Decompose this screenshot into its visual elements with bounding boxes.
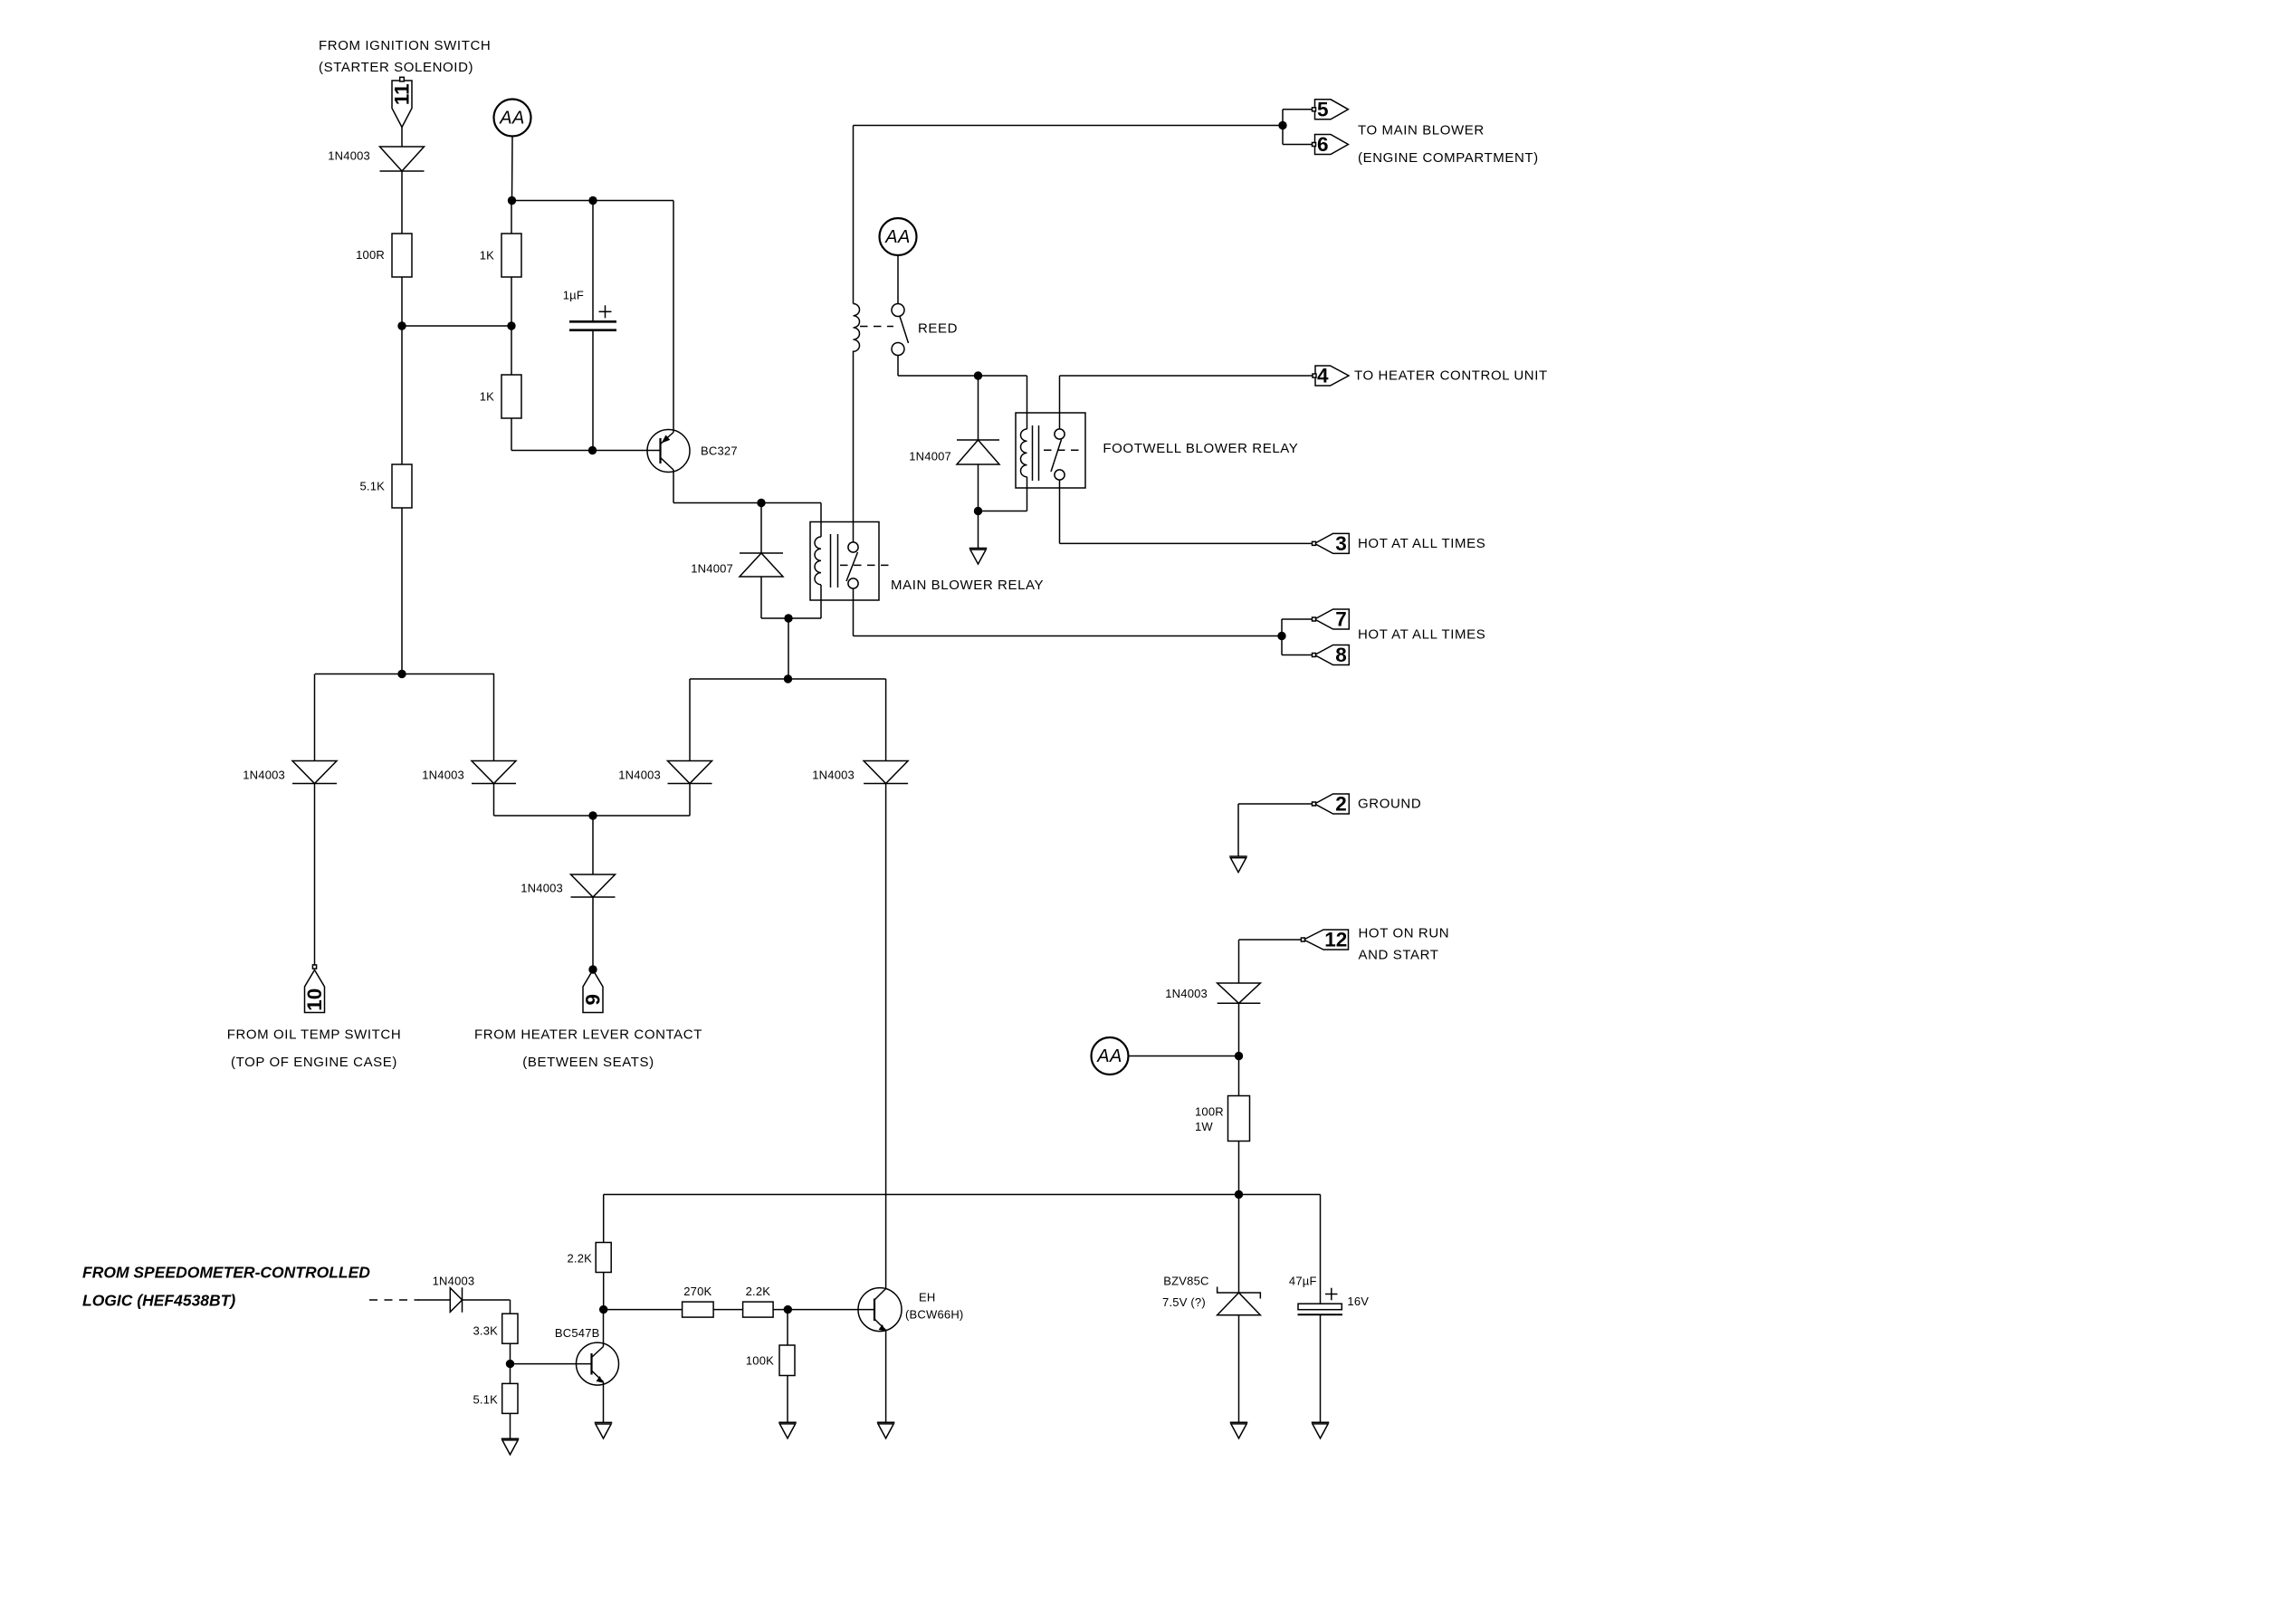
wire R6 to R7 <box>510 1343 511 1383</box>
wire main contact bottom down <box>853 588 855 636</box>
ground (footwell coil) <box>969 549 988 565</box>
diode D6 1N4007 (main relay flyback) <box>740 553 783 577</box>
svg-text:TO HEATER CONTROL UNIT: TO HEATER CONTROL UNIT <box>1354 368 1548 384</box>
svg-text:(STARTER SOLENOID): (STARTER SOLENOID) <box>319 60 473 75</box>
svg-text:HOT AT ALL TIMES: HOT AT ALL TIMES <box>1358 536 1485 551</box>
svg-text:1N4007: 1N4007 <box>691 562 733 576</box>
wire R3 to R4 <box>511 277 512 375</box>
wire to connectors 7/8 <box>854 635 1283 637</box>
wire 5/6 split <box>1282 110 1284 145</box>
svg-text:LOGIC (HEF4538BT): LOGIC (HEF4538BT) <box>82 1291 235 1309</box>
svg-text:1N4003: 1N4003 <box>618 769 661 782</box>
wire R2 to diode row rail <box>401 508 403 674</box>
wire BC547 collector up <box>603 1310 605 1347</box>
svg-text:EH: EH <box>919 1291 935 1304</box>
wire AA to reed contact <box>897 255 899 303</box>
wire top rail down to reed coil <box>853 126 855 304</box>
svg-text:1N4003: 1N4003 <box>520 882 563 895</box>
svg-text:47µF: 47µF <box>1289 1275 1317 1288</box>
svg-text:(ENGINE COMPARTMENT): (ENGINE COMPARTMENT) <box>1358 150 1539 166</box>
wire 11 to D1 <box>401 128 403 148</box>
wire R9 to R10 <box>713 1309 743 1311</box>
svg-text:5.1K: 5.1K <box>359 480 385 493</box>
svg-text:2.2K: 2.2K <box>746 1285 771 1298</box>
wire EH emitter to ground <box>885 1331 887 1423</box>
reed contact bottom <box>892 343 904 356</box>
connector 5 <box>1315 98 1349 120</box>
wire main coil top pin <box>820 503 822 538</box>
svg-text:(TOP OF ENGINE CASE): (TOP OF ENGINE CASE) <box>231 1055 397 1070</box>
wire D1 to R1 <box>401 171 403 234</box>
svg-text:1N4007: 1N4007 <box>909 450 951 463</box>
transistor Q3 EH BCW66H (NPN) <box>858 1288 902 1332</box>
wire D11 to 3.3K branch <box>463 1299 511 1301</box>
ground (EH) <box>877 1422 895 1438</box>
svg-text:1N4003: 1N4003 <box>328 149 370 163</box>
svg-text:5.1K: 5.1K <box>473 1393 498 1407</box>
main relay coil <box>815 537 821 585</box>
diode D8 1N4003 <box>864 761 908 784</box>
wire D6/coil bottom rail <box>761 617 821 619</box>
wire node A to R2 <box>401 326 403 464</box>
reed relay coil <box>854 304 860 352</box>
wire D7 to connector 9 <box>592 897 594 970</box>
wire AA to rail <box>511 137 514 201</box>
junction D5 top <box>974 371 982 379</box>
wire to D3 <box>493 674 495 761</box>
ground (connector 2) <box>1229 856 1247 873</box>
svg-text:11: 11 <box>391 83 414 105</box>
svg-text:AND START: AND START <box>1359 948 1439 963</box>
connector 4 <box>1315 365 1349 387</box>
svg-text:FOOTWELL BLOWER RELAY: FOOTWELL BLOWER RELAY <box>1103 441 1298 456</box>
diode D1 1N4003 <box>380 147 425 171</box>
wire down to R6 <box>510 1300 511 1314</box>
main relay contact top <box>848 542 858 552</box>
wire to D5 <box>978 376 979 440</box>
relay K2 FOOTWELL BLOWER RELAY <box>1016 413 1085 488</box>
transistor Q2 BC547B (NPN) <box>577 1342 619 1385</box>
junction left rail <box>397 670 406 678</box>
wire R8 to collector node <box>603 1273 605 1310</box>
svg-text:2.2K: 2.2K <box>567 1252 592 1266</box>
node B junction <box>507 321 515 330</box>
wire to D11 <box>418 1299 450 1301</box>
wire base rail to BC327 base <box>511 450 661 452</box>
ground (C2) <box>1312 1422 1330 1438</box>
junction 100K <box>784 1305 792 1314</box>
connector 2 <box>1314 793 1349 816</box>
wire to connector 6 <box>1283 144 1314 146</box>
wire left diode rail <box>315 673 494 675</box>
svg-text:3.3K: 3.3K <box>473 1324 498 1338</box>
wire regulator rail (long) <box>604 1194 1321 1196</box>
svg-text:8: 8 <box>1335 644 1347 666</box>
connector 7 <box>1314 608 1349 631</box>
junction BC547 base <box>506 1360 514 1368</box>
svg-text:FROM SPEEDOMETER-CONTROLLED: FROM SPEEDOMETER-CONTROLLED <box>82 1263 370 1281</box>
wire to footwell coil bottom <box>979 511 1027 512</box>
dashed input wire <box>369 1299 419 1301</box>
zener D10 BZV85C <box>1218 1287 1261 1315</box>
svg-text:1N4003: 1N4003 <box>812 769 855 782</box>
wire D2 to connector 10 <box>314 784 316 966</box>
svg-text:100R: 100R <box>356 248 385 262</box>
footwell relay coil <box>1021 429 1027 477</box>
wire reed to footwell coil <box>898 375 1027 377</box>
diode D7 1N4003 <box>571 874 616 897</box>
junction D5 bottom <box>974 507 982 515</box>
main relay actuator dashes <box>840 564 893 566</box>
svg-text:(BCW66H): (BCW66H) <box>905 1308 963 1322</box>
wire rail to R3 <box>511 201 512 234</box>
svg-text:BZV85C: BZV85C <box>1163 1275 1208 1288</box>
junction coil bottom rail <box>784 614 792 622</box>
wire R1 to node A <box>401 277 403 326</box>
junction 5/6 <box>1278 121 1286 129</box>
wire BC547 emitter down <box>603 1382 605 1423</box>
wire to D4 <box>689 679 691 761</box>
connector 9 (from heater lever contact) <box>582 970 605 1013</box>
ground (R7) <box>501 1438 520 1455</box>
svg-text:3: 3 <box>1335 532 1347 555</box>
junction cap top <box>588 196 597 205</box>
diode D5 1N4007 (footwell flyback) <box>957 440 999 464</box>
connector 3 <box>1314 532 1349 555</box>
diode D2 1N4003 <box>292 761 337 784</box>
wire reed bottom down <box>897 356 899 377</box>
junction rail left <box>508 196 516 205</box>
wire node to R9 <box>604 1309 683 1311</box>
wire D8 to EH collector (long) <box>885 783 887 1288</box>
junction right rail <box>784 674 792 683</box>
wire node to R5 <box>1238 1056 1240 1096</box>
wire D9 to AA node <box>1238 1003 1240 1056</box>
wire to D6 <box>760 503 762 554</box>
svg-text:1µF: 1µF <box>563 289 584 302</box>
footwell relay blade <box>1051 440 1062 473</box>
connector 12 <box>1304 929 1348 951</box>
footwell relay core bars <box>1032 425 1034 481</box>
power port AA (top) <box>494 100 531 137</box>
svg-text:BC327: BC327 <box>701 444 738 458</box>
wire R10 to EH base <box>773 1309 874 1311</box>
junction BC547 collector <box>599 1305 607 1314</box>
svg-text:GROUND: GROUND <box>1358 797 1421 812</box>
wire to connector 7 <box>1282 618 1314 620</box>
wire R5 to regulator rail <box>1238 1142 1240 1195</box>
wire footwell coil bottom pin <box>1027 477 1028 511</box>
svg-text:1N4003: 1N4003 <box>243 769 285 782</box>
main relay contact bottom <box>848 578 858 588</box>
junction regulator rail <box>1235 1190 1243 1199</box>
diode D11 1N4003 (small) <box>450 1287 462 1313</box>
wire D3 down <box>493 784 495 817</box>
wire cap top lead <box>592 201 594 321</box>
reed blade <box>900 317 909 344</box>
svg-text:BC547B: BC547B <box>555 1326 600 1340</box>
svg-text:16V: 16V <box>1347 1294 1369 1308</box>
wire to D8 <box>885 679 887 761</box>
svg-text:100R: 100R <box>1195 1105 1224 1119</box>
svg-text:FROM HEATER LEVER CONTACT: FROM HEATER LEVER CONTACT <box>474 1027 702 1043</box>
wire D5 bottom <box>978 464 979 511</box>
connector 11 (from ignition switch) <box>391 81 414 128</box>
svg-text:12: 12 <box>1324 929 1347 951</box>
wire cap bottom lead <box>592 331 594 451</box>
wire D4 down <box>689 784 691 817</box>
footwell contact bottom <box>1055 470 1065 480</box>
svg-text:1N4003: 1N4003 <box>433 1275 475 1288</box>
diode D3 1N4003 <box>472 761 516 784</box>
resistor R4 1K <box>501 375 521 418</box>
wire to R11 <box>787 1310 788 1345</box>
wire R4 to base rail <box>511 418 512 451</box>
junction merge rail <box>588 811 597 819</box>
svg-text:1N4003: 1N4003 <box>1165 987 1208 1000</box>
wire main blower rail <box>854 125 1284 127</box>
wire 12 to D9 <box>1238 940 1240 983</box>
wire rail to zener <box>1238 1195 1240 1294</box>
wire to connector 8 <box>1282 654 1314 656</box>
svg-text:FROM IGNITION SWITCH: FROM IGNITION SWITCH <box>319 38 491 53</box>
connector 8 <box>1314 644 1349 666</box>
wire R11 to ground <box>787 1376 788 1423</box>
wire to connector 3 <box>1060 542 1314 544</box>
main relay blade <box>846 552 858 581</box>
node A junction <box>397 321 406 330</box>
svg-text:10: 10 <box>303 989 326 1011</box>
resistor R7 5.1K <box>502 1383 518 1413</box>
resistor R10 2.2K <box>743 1302 774 1317</box>
wire to connector 4 <box>1060 375 1314 377</box>
wire D3/D4 merge rail <box>494 815 691 817</box>
resistor R11 100K <box>779 1345 795 1376</box>
svg-text:7.5V (?): 7.5V (?) <box>1162 1295 1206 1309</box>
wire reed coil to main relay contact <box>853 351 855 543</box>
wire to ground stub <box>978 511 979 549</box>
wire to D2 <box>314 674 316 761</box>
wire node A to node B <box>402 325 511 327</box>
resistor R8 2.2K <box>596 1243 611 1273</box>
power port AA (regulator) <box>1092 1037 1129 1075</box>
wire rail to R8 <box>603 1195 605 1243</box>
svg-text:1N4003: 1N4003 <box>422 769 464 782</box>
junction 7/8 <box>1277 632 1285 640</box>
wire collector rail to main coil <box>673 502 821 504</box>
resistor R5 100R 1W <box>1228 1096 1250 1142</box>
wire to ground 2 <box>1237 804 1239 856</box>
svg-text:5: 5 <box>1317 98 1329 120</box>
wire connector 12 stub <box>1239 939 1304 941</box>
svg-text:7: 7 <box>1335 608 1347 631</box>
reed contact top <box>892 304 904 317</box>
svg-text:4: 4 <box>1317 365 1329 387</box>
svg-text:HOT ON RUN: HOT ON RUN <box>1359 926 1450 941</box>
wire to diode-row rail <box>788 618 789 679</box>
main relay core bars <box>830 534 832 588</box>
svg-text:HOT AT ALL TIMES: HOT AT ALL TIMES <box>1358 627 1485 643</box>
resistor R9 270K <box>683 1302 714 1317</box>
svg-text:1K: 1K <box>480 390 494 404</box>
resistor R2 5.1K <box>392 464 412 508</box>
svg-text:100K: 100K <box>746 1354 774 1368</box>
wire to connector 5 <box>1283 109 1314 110</box>
relay K1 MAIN BLOWER RELAY <box>810 522 879 601</box>
power port AA (reed) <box>880 218 917 255</box>
wire R7 to ground <box>510 1413 511 1438</box>
resistor R1 100R <box>392 234 412 277</box>
footwell actuator dashes <box>1044 449 1083 451</box>
ground (R11) <box>778 1422 797 1438</box>
wire main coil bottom pin <box>820 585 822 618</box>
wire right diode rail <box>690 678 886 680</box>
wire footwell contact bottom down <box>1059 480 1061 543</box>
wire merge to D7 <box>592 816 594 874</box>
wire 7/8 split <box>1281 619 1283 655</box>
wire C2 to ground <box>1320 1314 1322 1422</box>
resistor R3 1K <box>501 234 521 277</box>
svg-text:FROM OIL TEMP SWITCH: FROM OIL TEMP SWITCH <box>227 1027 402 1043</box>
svg-text:MAIN BLOWER RELAY: MAIN BLOWER RELAY <box>891 578 1044 593</box>
wire top rail to BC327 emitter <box>512 200 674 202</box>
diode D9 1N4003 <box>1218 983 1261 1003</box>
wire footwell coil top pin <box>1027 376 1028 429</box>
connector 6 <box>1315 133 1349 156</box>
junction connector 9 <box>588 965 597 973</box>
wire BC327 emitter up to rail <box>673 201 674 433</box>
diode D4 1N4003 <box>668 761 712 784</box>
junction D6 top <box>757 499 765 507</box>
wire rail to C2 <box>1320 1195 1322 1304</box>
svg-text:(BETWEEN SEATS): (BETWEEN SEATS) <box>522 1055 654 1070</box>
svg-text:AA: AA <box>1096 1046 1122 1066</box>
wire D6 to bottom rail <box>760 577 762 618</box>
svg-text:1K: 1K <box>480 249 494 263</box>
footwell contact top <box>1055 429 1065 439</box>
wire AA to node <box>1129 1056 1239 1057</box>
transistor Q1 BC327 (PNP) <box>647 430 690 473</box>
connector 10 (from oil temp switch) <box>303 970 326 1013</box>
svg-text:2: 2 <box>1335 793 1347 816</box>
svg-text:270K: 270K <box>683 1285 711 1298</box>
svg-text:REED: REED <box>918 321 958 337</box>
ground (BC547) <box>595 1422 613 1438</box>
svg-text:1W: 1W <box>1195 1120 1213 1133</box>
svg-text:AA: AA <box>499 109 524 129</box>
svg-text:9: 9 <box>582 994 605 1006</box>
ground (zener) <box>1230 1422 1248 1438</box>
svg-text:AA: AA <box>884 227 910 247</box>
wire base to BC547 <box>511 1363 592 1365</box>
wire BC327 collector down <box>673 470 674 503</box>
wire zener to ground <box>1238 1315 1240 1423</box>
wire footwell contact top pin <box>1059 376 1061 429</box>
svg-text:TO MAIN BLOWER: TO MAIN BLOWER <box>1358 123 1485 139</box>
reed actuator dashes <box>860 326 893 328</box>
resistor R6 3.3K <box>502 1314 518 1343</box>
junction AA node <box>1235 1052 1243 1060</box>
wire connector 2 stub <box>1238 803 1314 805</box>
junction cap bottom / base <box>588 446 597 454</box>
svg-text:6: 6 <box>1317 133 1329 156</box>
